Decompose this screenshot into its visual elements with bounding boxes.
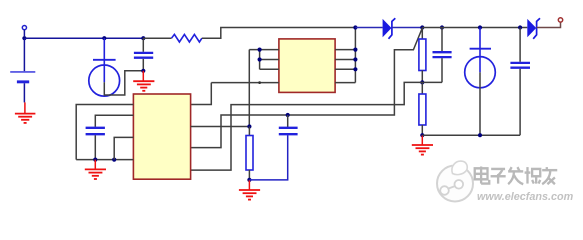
zener diode D1 <box>383 18 396 39</box>
wire D2 to terminal OUT <box>537 22 561 27</box>
node U1 right bus dot 3 <box>353 67 357 71</box>
wire U1 right pin 3 <box>335 68 355 70</box>
wire rail right gray segment <box>422 27 527 29</box>
wire PR2 output down <box>479 72 481 135</box>
ground GND1 (battery ground) <box>15 102 36 123</box>
node J2 (source PR1 tap on rail) <box>102 36 106 40</box>
capacitor C2 <box>422 28 451 83</box>
terminal IN (left input terminal) <box>22 26 26 37</box>
node U1 right bus dot 2 <box>353 57 357 61</box>
wire U2 left pin 3 riser <box>114 137 133 159</box>
terminal OUT <box>558 18 562 22</box>
node U1 right bus rail dot <box>353 25 357 29</box>
node J1 (left rail junction) <box>22 36 26 40</box>
source/probe PR1 (circle element) <box>89 38 120 96</box>
node U1 left bus dot a <box>258 48 262 52</box>
node PR2 rail junction <box>478 25 482 29</box>
node A (R2/R4/C2 junction) <box>420 80 424 84</box>
wire U2 bottom-left ground rail <box>76 159 133 161</box>
node C3 bottom / GND4 <box>93 158 97 162</box>
wire PR1 output (to C1 bottom node) <box>104 71 141 95</box>
resistor R3 (box) <box>246 127 253 180</box>
wire U1 pin4 down to U2 right pin 1 <box>191 83 212 105</box>
wire left rail top (terminal to C1 junction) <box>24 37 143 39</box>
node J3 (C1 top junction on rail) <box>141 36 145 40</box>
resistor R4 (box, below node A) <box>419 82 426 135</box>
svg-text:www.elecfans.com: www.elecfans.com <box>477 191 574 203</box>
ground GND3 <box>239 180 260 200</box>
wire rail blue segment to D1 <box>355 27 382 29</box>
wire U2 left pin 2 (to C3 top) <box>95 115 133 127</box>
node B (zener junction on rail) <box>420 25 424 29</box>
node C4 top junction <box>286 113 290 117</box>
node PR2 bottom junction <box>478 133 482 137</box>
ground GND5 <box>412 135 433 154</box>
wire ground net right (J7 to C3b corner) <box>422 134 520 136</box>
node R3 bottom ground node <box>247 178 251 182</box>
wire U1 left pin 4 <box>211 82 279 84</box>
wire U1 right pin 2 <box>335 59 355 61</box>
node small dot on U1 pin4 wire <box>258 81 261 84</box>
wire U1 left bus <box>259 50 261 70</box>
node C2 rail junction <box>440 25 444 29</box>
wire U2 right pin 2 (to R3 top) <box>191 126 250 128</box>
node U1 left bus dot b <box>258 57 262 61</box>
wire battery drop <box>23 38 25 71</box>
node J7 (R4 bottom ground node) <box>420 133 424 137</box>
node J4 (C1 bottom / ground node) <box>141 69 145 73</box>
node U2 pin3 riser junction <box>112 158 116 162</box>
wire R1 to top rail (jog up) <box>202 28 356 39</box>
node C3b rail junction <box>518 25 522 29</box>
ground GND4 <box>85 160 106 179</box>
wire U1 right bus <box>354 28 356 83</box>
wire node B feedback (diagonal to U2 right pin 3 and C4) <box>191 28 423 148</box>
watermark logo (elecfans) <box>437 161 473 201</box>
wire D1 cathode to node B <box>392 27 422 29</box>
capacitor C4 <box>249 115 297 180</box>
wire U1 right pin 1 <box>335 49 355 51</box>
wire node A to U2 right pin 4 <box>191 82 423 170</box>
node R3 top junction <box>247 124 251 128</box>
resistor R1 (zigzag) <box>172 34 202 42</box>
wire U1 left pin 1 <box>249 49 279 51</box>
battery V1 <box>10 72 35 103</box>
wire rail to R1 <box>143 37 171 39</box>
source/probe PR2 (circle element) <box>465 28 496 88</box>
wire U1 left pin 3 <box>260 68 279 70</box>
wire U2 left pin 1 (wrap to ground) <box>76 105 133 160</box>
resistor R2 (box) <box>419 28 426 83</box>
capacitor C1 <box>134 38 153 71</box>
node U1 right bus dot 1 <box>353 48 357 52</box>
wire U1 right pin 4 <box>335 82 355 84</box>
wire U1 left pin 2 <box>260 59 279 61</box>
wire U1 pin1 to R3 (long vertical) <box>248 50 250 127</box>
IC U1 <box>279 39 335 93</box>
capacitor C5 <box>510 28 530 136</box>
capacitor C3 <box>86 128 105 160</box>
ground GND2 <box>133 71 154 91</box>
IC U2 <box>133 94 190 179</box>
zener diode D2 <box>527 18 540 39</box>
watermark chinese text (pseudo glyphs) <box>475 167 558 185</box>
